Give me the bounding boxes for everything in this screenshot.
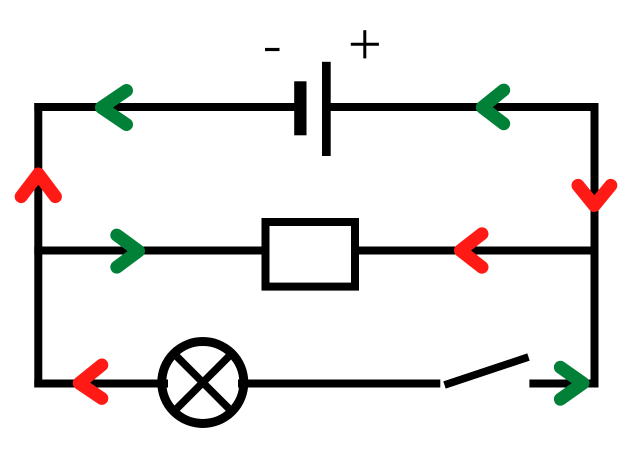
battery B1 negative plate xyxy=(294,81,306,135)
wire top-left segment xyxy=(34,103,296,111)
wire top-right segment xyxy=(330,103,599,111)
wire bottom-left segment xyxy=(34,380,168,388)
current arrow green left on top-right wire xyxy=(482,90,503,124)
resistor R1 xyxy=(266,222,356,287)
current arrow red up on left vertical wire xyxy=(21,174,55,197)
current arrow green right on bottom wire xyxy=(560,367,583,399)
current arrow red left on middle wire xyxy=(461,234,483,267)
battery B1 plus label xyxy=(351,30,379,58)
current arrow green left on top-left wire xyxy=(101,91,126,125)
wire middle-right segment xyxy=(358,247,599,255)
battery B1 positive plate xyxy=(322,62,331,156)
battery B1 minus label xyxy=(265,48,280,51)
lamp L1 xyxy=(162,342,244,424)
wire bottom-middle segment xyxy=(238,380,440,388)
wire middle-left segment xyxy=(34,247,263,255)
wire right vertical xyxy=(591,103,599,388)
current arrow red left on bottom wire xyxy=(79,365,102,398)
wire bottom-right segment xyxy=(529,380,598,388)
switch S1 blade xyxy=(445,357,529,385)
current arrow red down on right vertical wire xyxy=(578,185,611,205)
wire left vertical xyxy=(34,103,42,388)
current arrow green right on middle wire xyxy=(117,235,139,267)
